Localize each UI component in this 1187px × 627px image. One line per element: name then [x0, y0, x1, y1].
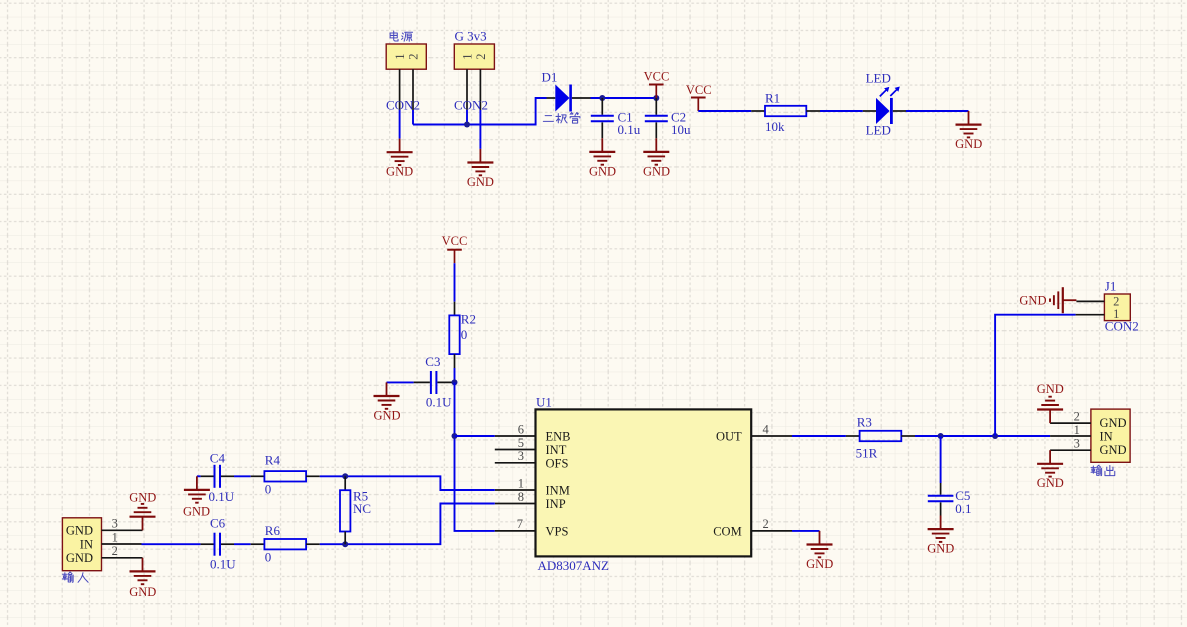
wire OUT to R3 [792, 435, 846, 437]
svg-text:IN: IN [1100, 429, 1113, 443]
svg-text:R4: R4 [265, 452, 281, 467]
wire bus to diode [413, 98, 547, 125]
U1 pin 3 OFS [495, 449, 569, 470]
input pin 2 [102, 544, 143, 558]
connector P2 G3v3 box [454, 44, 494, 69]
svg-text:4: 4 [763, 422, 770, 436]
svg-text:D1: D1 [542, 70, 558, 85]
svg-text:OFS: OFS [546, 456, 569, 470]
svg-text:INM: INM [546, 484, 570, 498]
wire R4 to INM (staircase) [320, 476, 495, 490]
svg-text:51R: 51R [856, 445, 878, 460]
svg-text:10u: 10u [671, 122, 691, 137]
svg-text:INT: INT [546, 443, 567, 457]
wire diode to VCC node [591, 97, 657, 99]
J1 pin 1 [1076, 314, 1105, 316]
connector 输入 box [62, 518, 101, 571]
svg-text:IN: IN [80, 537, 93, 551]
svg-text:CON2: CON2 [454, 98, 488, 113]
ground GND (J1, rotated) [1019, 287, 1076, 313]
capacitor C5 [928, 483, 954, 516]
svg-text:8: 8 [518, 490, 524, 504]
op-amp U1 AD8307ANZ body [536, 409, 752, 556]
ground GND (C2) [643, 138, 670, 178]
svg-text:2: 2 [474, 53, 488, 59]
power VCC (LED branch) [686, 83, 712, 111]
J1 pin 2 [1076, 300, 1104, 302]
svg-text:C3: C3 [425, 354, 440, 369]
diode D1 [547, 85, 591, 112]
svg-text:3: 3 [1074, 437, 1080, 451]
ground GND (P2) [467, 149, 494, 189]
label 输出 [1091, 465, 1115, 475]
svg-text:G 3v3: G 3v3 [455, 29, 487, 44]
input pin 1 [102, 530, 142, 544]
wire C4 to GND corner [197, 475, 201, 477]
svg-text:OUT: OUT [716, 430, 742, 444]
svg-text:7: 7 [517, 517, 523, 531]
svg-text:10k: 10k [765, 119, 785, 134]
svg-text:GND: GND [955, 137, 982, 151]
junction at C3/R2 node [452, 379, 458, 385]
resistor R4 [251, 471, 320, 481]
svg-text:1: 1 [112, 530, 118, 544]
svg-text:2: 2 [763, 517, 769, 531]
svg-text:2: 2 [407, 53, 421, 59]
wire junction to ENB pin [455, 435, 495, 437]
svg-text:VPS: VPS [546, 525, 569, 539]
U1 pin 5 INT [495, 436, 567, 457]
wire junction down to C5 [940, 436, 942, 483]
LED D? [863, 87, 906, 125]
label C2 [671, 109, 691, 137]
svg-text:CON2: CON2 [1105, 319, 1139, 334]
svg-text:R3: R3 [857, 414, 872, 429]
U1 pin 8 INP [495, 490, 566, 511]
output pin 2 [1050, 409, 1091, 423]
wire node down to ENB and VPS [455, 382, 495, 531]
svg-text:0: 0 [265, 550, 272, 565]
wire C4 to R4 [234, 475, 251, 477]
capacitor C4 [201, 465, 234, 488]
svg-text:1: 1 [518, 476, 524, 490]
U1 pin 4 OUT [716, 422, 792, 443]
svg-text:3: 3 [112, 517, 118, 531]
svg-text:GND: GND [66, 524, 93, 538]
capacitor C2 [645, 98, 668, 138]
label C6 [210, 515, 236, 571]
ground GND (C3) [373, 382, 400, 422]
wire LED to GND [906, 110, 969, 112]
svg-text:0: 0 [461, 327, 468, 342]
svg-text:AD8307ANZ: AD8307ANZ [538, 558, 610, 573]
label R4 [265, 452, 281, 496]
output pin 1 [1050, 423, 1091, 437]
ground GND (input pin3, up) [129, 490, 156, 530]
svg-text:GND: GND [1037, 476, 1064, 490]
connector P1 电源 box [386, 44, 426, 69]
label 输入 [63, 572, 89, 582]
U1 pin 2 COM [713, 517, 792, 538]
svg-text:5: 5 [518, 436, 524, 450]
svg-text:0.1U: 0.1U [209, 489, 235, 504]
svg-text:GND: GND [129, 585, 156, 599]
wire R1 to LED [820, 110, 863, 112]
ground GND (output pin2, up) [1037, 382, 1064, 423]
svg-text:CON2: CON2 [386, 98, 420, 113]
connector 输出 box [1091, 409, 1130, 462]
label R3 [856, 414, 878, 460]
svg-text:NC: NC [353, 501, 371, 516]
ground GND (input pin2, down) [129, 558, 156, 599]
svg-text:R1: R1 [765, 91, 780, 106]
wire C3 to GND [387, 381, 414, 383]
svg-text:0.1: 0.1 [955, 501, 971, 516]
capacitor C3 [414, 371, 455, 394]
capacitor C6 [201, 533, 234, 556]
svg-text:GND: GND [806, 557, 833, 571]
svg-text:U1: U1 [536, 395, 552, 410]
power VCC (R2 branch) [442, 234, 468, 263]
wire P1 pin2 to bus [412, 110, 414, 125]
input pin 3 [102, 517, 143, 531]
svg-text:R2: R2 [461, 312, 476, 327]
junction at J1 branch [992, 433, 998, 439]
svg-text:R6: R6 [265, 523, 281, 538]
junction at P2 pin1 [464, 122, 470, 128]
wire P2 pin2 to GND [479, 110, 481, 149]
ground GND (C4) [183, 476, 210, 518]
U1 pin 6 ENB [495, 422, 571, 443]
P2 pin 2 [479, 69, 481, 110]
wire P2 pin1 to bus [466, 110, 468, 125]
wire junction up to J1 pin1 [995, 315, 1076, 436]
svg-text:ENB: ENB [546, 430, 571, 444]
ground GND (C5) [927, 516, 954, 556]
svg-text:C6: C6 [210, 515, 226, 530]
wire C6 to R6 [234, 543, 251, 545]
ground GND (output pin3, down) [1037, 450, 1064, 490]
wire P1 pin1 to GND [399, 110, 401, 139]
power VCC (top) [644, 69, 670, 98]
P1 pin 2 [412, 69, 414, 110]
label R6 [265, 523, 281, 565]
P2 pin 1 [466, 69, 468, 110]
U1 pin 7 VPS [495, 517, 569, 538]
svg-text:GND: GND [467, 175, 494, 189]
svg-text:0.1u: 0.1u [618, 122, 641, 137]
svg-text:VCC: VCC [644, 69, 670, 83]
ground GND (P1) [386, 139, 413, 179]
svg-text:GND: GND [373, 409, 400, 423]
svg-text:2: 2 [1074, 409, 1080, 423]
wire VCC to R1 [698, 110, 751, 112]
ground GND (COM) [806, 531, 833, 571]
label R5 [353, 489, 371, 516]
svg-text:GND: GND [1037, 382, 1064, 396]
svg-text:GND: GND [66, 551, 93, 565]
label C5 [955, 488, 971, 516]
label R2 [461, 312, 476, 343]
connector J1 box [1104, 294, 1130, 321]
svg-text:VCC: VCC [686, 83, 712, 97]
svg-text:J1: J1 [1105, 279, 1117, 294]
label C1 [618, 109, 641, 137]
svg-text:0: 0 [265, 481, 272, 496]
junction at C2/VCC [653, 95, 659, 101]
svg-text:GND: GND [1100, 416, 1127, 430]
svg-text:INP: INP [546, 497, 566, 511]
label C3 [425, 354, 452, 409]
svg-text:COM: COM [713, 525, 741, 539]
svg-text:3: 3 [518, 449, 524, 463]
P1 pin 1 [399, 69, 401, 110]
svg-text:GND: GND [1100, 443, 1127, 457]
output pin 3 [1050, 437, 1091, 451]
label C4 [209, 451, 235, 504]
U1 pin 1 INM [495, 476, 570, 497]
wire R6 to INP (staircase) [320, 504, 495, 545]
wire COM to GND [792, 530, 820, 532]
wire R2 to node [454, 368, 456, 382]
svg-text:GND: GND [643, 164, 670, 178]
svg-text:GND: GND [589, 164, 616, 178]
svg-text:LED: LED [866, 122, 891, 137]
svg-text:1: 1 [1074, 423, 1080, 437]
junction at C5 [938, 433, 944, 439]
wire R3 to output pin [915, 435, 1050, 437]
resistor R6 [251, 539, 320, 549]
svg-text:6: 6 [518, 422, 524, 436]
label 电源 [390, 31, 412, 41]
label R1 [765, 91, 785, 134]
junction at R4/R5 [342, 473, 348, 479]
svg-text:0.1U: 0.1U [210, 557, 236, 572]
svg-text:VCC: VCC [442, 234, 468, 248]
svg-text:GND: GND [1019, 294, 1046, 308]
resistor R2 [449, 302, 459, 368]
svg-text:GND: GND [183, 504, 210, 518]
svg-text:GND: GND [927, 542, 954, 556]
capacitor C1 [591, 98, 614, 138]
resistor R1 [751, 106, 820, 116]
wire VCC to R2 [454, 263, 456, 302]
ground GND (LED) [955, 111, 982, 151]
junction at C1 [599, 95, 605, 101]
svg-text:LED: LED [866, 70, 891, 85]
svg-text:0.1U: 0.1U [426, 395, 452, 410]
svg-text:GND: GND [386, 164, 413, 178]
svg-text:GND: GND [129, 490, 156, 504]
ground GND (C1) [589, 138, 616, 178]
svg-text:1: 1 [393, 53, 407, 59]
svg-text:2: 2 [112, 544, 118, 558]
svg-text:C4: C4 [210, 451, 226, 466]
svg-text:1: 1 [461, 53, 475, 59]
resistor R5 [340, 476, 350, 544]
resistor R3 [846, 431, 915, 441]
junction at R6/R5 [342, 541, 348, 547]
junction at ENB [452, 433, 458, 439]
label 二极管 [543, 113, 580, 124]
wire input pin1 to C6 [142, 543, 201, 545]
